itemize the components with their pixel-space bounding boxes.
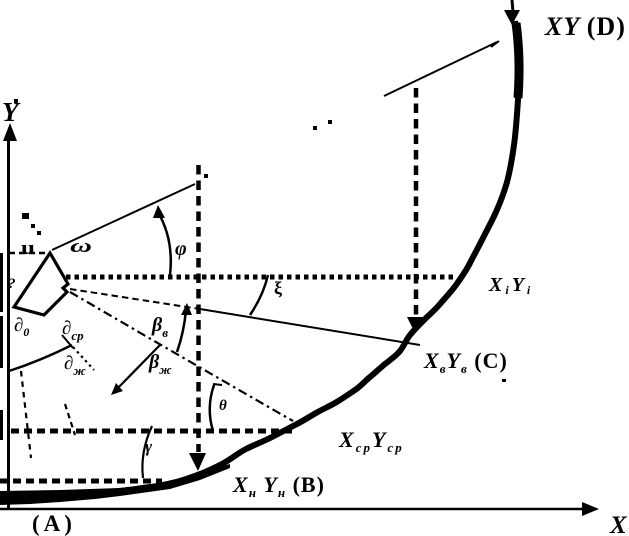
svg-text:γ: γ <box>145 437 153 456</box>
dashed horizontal y=430 <box>11 429 295 434</box>
angle arc theta <box>210 385 214 431</box>
X axis <box>0 508 588 511</box>
angle arc beta-v with arrow <box>177 310 186 352</box>
dot beside Y label <box>14 99 18 103</box>
svg-text:XY (D): XY (D) <box>544 12 626 41</box>
short dashed D2 <box>65 404 75 435</box>
svg-text:X: X <box>609 512 628 536</box>
tick at end of throw line <box>491 41 499 47</box>
arrowhead down at C <box>407 317 423 333</box>
svg-text:φ: φ <box>175 238 187 260</box>
short vertical dashed D1 <box>21 371 31 458</box>
dashed horizontal y=480 <box>0 479 162 484</box>
line of throw L1 (sketchy) <box>52 184 195 250</box>
Y axis <box>7 138 10 509</box>
dotted diagonal below delta-sr <box>73 347 94 370</box>
svg-text:u: u <box>21 238 36 259</box>
dotted horizontal through muzzle y=277 <box>66 275 456 280</box>
angle arc phi <box>158 212 171 275</box>
svg-text:ω: ω <box>70 236 92 257</box>
line of throw L1 upper segment <box>384 42 497 96</box>
chord to C : L2 <box>70 289 200 309</box>
svg-text:Y: Y <box>2 97 21 127</box>
projectile polygon at start <box>14 253 68 315</box>
specks on broken throw line <box>313 126 317 130</box>
arc under delta labels <box>9 345 72 371</box>
curve thick start wedge at A <box>0 464 230 505</box>
X axis arrowhead <box>582 502 599 516</box>
angle arc gamma <box>142 426 152 478</box>
vertical dashed line x=417 <box>414 88 419 318</box>
vertical dashed line x=200 <box>204 174 208 178</box>
speck under C label <box>502 379 506 382</box>
arrowhead down at B <box>189 453 206 471</box>
down arrow above curve top (D) <box>512 0 513 12</box>
svg-text:ξ: ξ <box>274 278 282 299</box>
svg-text:θ: θ <box>219 398 227 414</box>
chord dash-dot L3 <box>70 292 293 421</box>
dashed horizon at muzzle (u line) <box>9 252 48 255</box>
svg-text:(A): (A) <box>32 511 76 536</box>
Y axis arrowhead <box>3 123 17 141</box>
svg-text:?: ? <box>8 276 16 292</box>
beta-zh pointer line with arrow <box>116 345 160 390</box>
curve thick top segment <box>516 23 519 98</box>
angle arc xi <box>250 275 268 315</box>
trajectory curve <box>6 21 519 500</box>
dash-dot axis extension above polygon <box>22 213 29 219</box>
left page-edge bar <box>0 253 3 312</box>
